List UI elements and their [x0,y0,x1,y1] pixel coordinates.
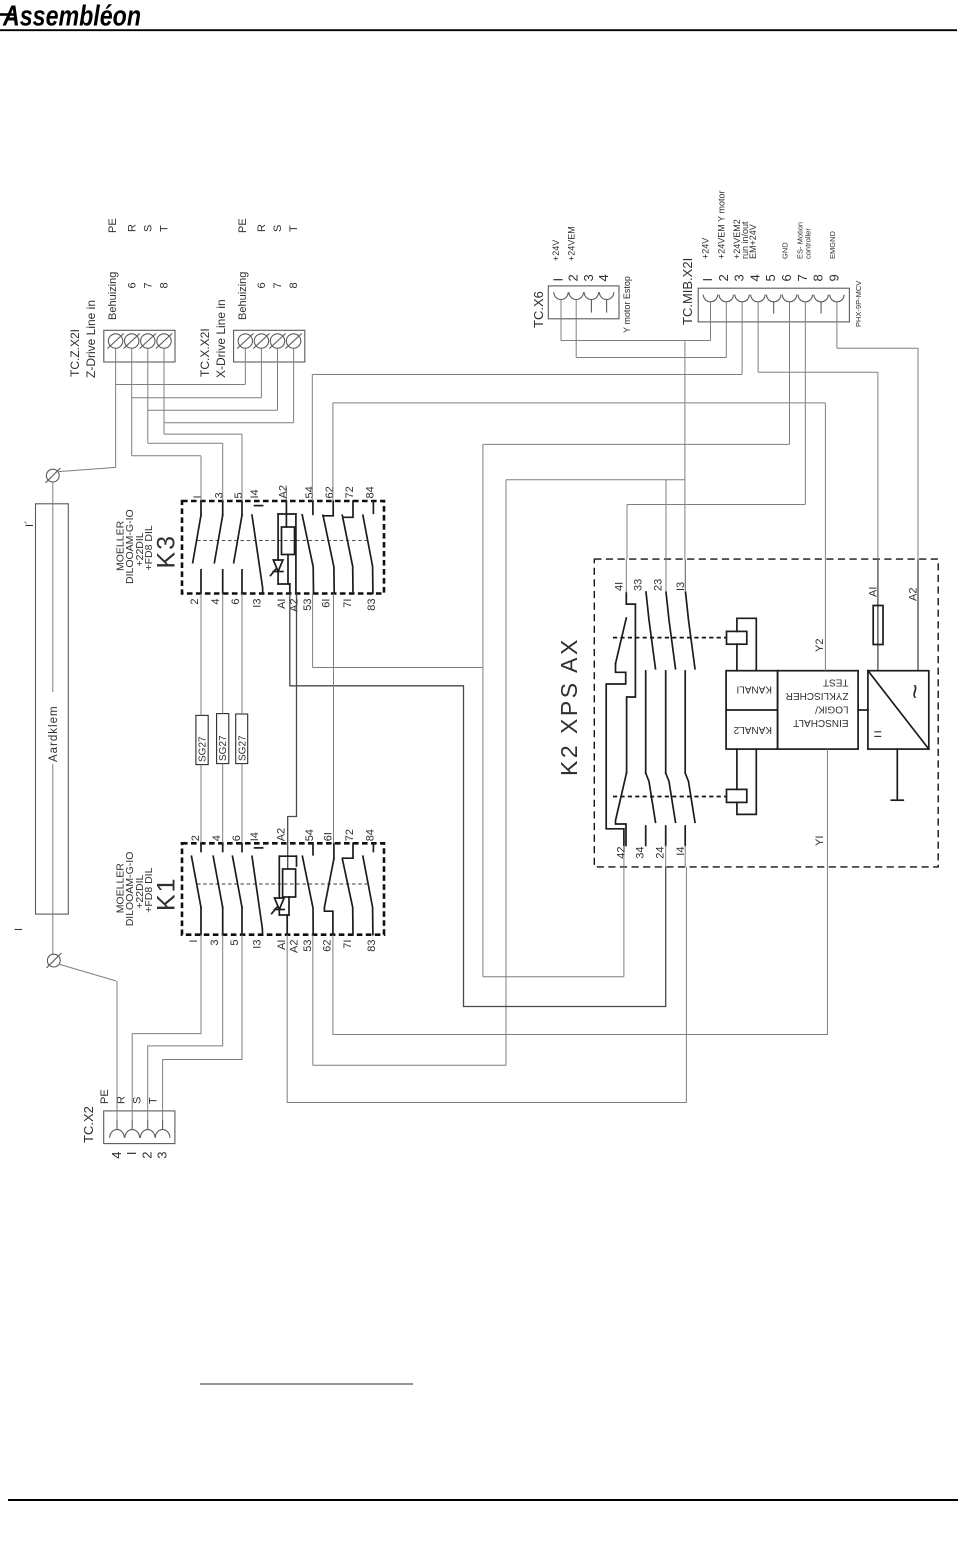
svg-text:A2: A2 [908,588,920,601]
svg-text:54: 54 [304,829,316,841]
wire earth 2 to TC.X2 PE [116,981,118,1121]
svg-text:Z-Drive Line in: Z-Drive Line in [84,300,98,378]
earth electrode symbol bottom [47,953,116,981]
svg-text:I4: I4 [675,847,687,856]
fuse F2 SG27 [217,714,230,764]
svg-text:3: 3 [214,492,226,498]
contactor K1 labels [114,852,180,927]
contactor K3 labels [114,509,180,584]
svg-text:AI: AI [868,587,880,597]
svg-text:AI: AI [276,940,288,950]
fuse F3 SG27 [236,714,249,764]
svg-text:K3: K3 [153,534,181,569]
svg-text:84: 84 [364,829,376,841]
svg-text:62: 62 [324,486,336,498]
svg-text:5: 5 [233,492,245,498]
connector TC.MIB.X2I [680,191,863,327]
contactor K1 box [182,843,384,934]
svg-text:SG27: SG27 [237,735,248,761]
svg-text:TC.X.X2I: TC.X.X2I [198,328,212,377]
svg-text:4: 4 [211,835,223,841]
K1 aux contact 14-13 [252,848,263,935]
svg-text:72: 72 [344,829,356,841]
svg-text:6: 6 [230,599,242,605]
K1 pin labels top [190,828,376,841]
wire K1 A1 to K2 contact 14 [287,867,686,1103]
K3 pin labels bottom [189,599,378,612]
svg-text:PE: PE [99,1089,111,1104]
svg-text:4I: 4I [614,582,626,591]
K3 coil A1-A2 [278,488,296,594]
svg-text:~: ~ [900,684,930,699]
wire K3 pole outputs through fuses SG27 to K1 [201,594,242,844]
footer separator line [200,1383,413,1385]
svg-text:R: R [127,224,139,232]
wire ES- motion controller net: MIB.7 to K2 41 [626,302,805,593]
wire K1 62 to K2 Y1 [333,867,828,1035]
svg-text:KANAL2: KANAL2 [733,724,772,735]
svg-text:controller: controller [804,228,813,259]
svg-text:7: 7 [143,282,155,288]
svg-text:3: 3 [155,1152,170,1159]
wire K3 A2 to K1 A2 [288,594,297,844]
K2 Y2 wire and label [814,559,826,671]
K3 aux contact 13-14 [252,506,263,594]
svg-text:EINSCHALT: EINSCHALT [793,717,848,728]
K1 aux contact 61-62 NC [324,843,334,934]
K1 coil A2-A1 [279,843,296,934]
svg-text:S: S [132,1097,144,1104]
wire +24VEM2 net: MIB.3 to K3 54 [312,302,742,501]
connector TC.X2 [81,1089,175,1158]
K2 lower actuator linkage [613,749,756,814]
svg-text:A2: A2 [289,940,301,953]
earth terminal strip Aardklem [13,482,68,954]
K1 suppressor diode [272,856,284,915]
K3 aux contact 61-62 NC [323,501,334,593]
K1 main poles 2-1 4-3 6-5 [192,843,243,934]
svg-text:83: 83 [366,599,378,611]
svg-text:6: 6 [779,274,794,281]
wire K3 A1 to K2 contact 24 [290,594,666,1007]
svg-text:2: 2 [140,1152,155,1159]
fuse F1 SG27 [196,715,209,764]
svg-text:2: 2 [716,274,731,281]
wire PE net top: Z.PE to X.PE and earth 1 [116,349,246,468]
svg-text:SG27: SG27 [218,735,229,761]
svg-text:6: 6 [231,835,243,841]
svg-text:83: 83 [366,940,378,952]
svg-text:T: T [288,225,300,232]
svg-text:4: 4 [747,274,762,281]
svg-text:4: 4 [210,599,222,605]
svg-text:A2: A2 [277,485,289,498]
svg-text:4: 4 [109,1152,124,1159]
svg-text:I4: I4 [249,489,261,498]
wire phase T net: Z.T / X.T / K3 pole 5 [164,349,294,501]
svg-text:S: S [272,225,284,232]
svg-text:+24VEM: +24VEM [566,226,576,261]
K2 logic box EINSCHALT LOGIK / ZYKLISCHER TEST [778,671,859,749]
wire phase S net: Z.S / X.S / K3 pole 3 [148,349,278,501]
K1 aux contact 84-83 [363,843,374,934]
connector TC.Z.X2I [68,218,175,378]
svg-text:7I: 7I [342,599,354,608]
K3 aux contact 83-84 [363,501,374,593]
svg-text:PE: PE [107,218,119,233]
safety relay K2 XPS AX box [556,559,938,867]
svg-text:I4: I4 [249,832,261,841]
svg-text:72: 72 [344,486,356,498]
svg-text:I: I [124,1152,139,1156]
contactor K3 box [182,501,384,594]
svg-text:9: 9 [826,274,841,281]
svg-text:TEST: TEST [823,677,849,688]
connector TC.X6 [531,226,632,333]
svg-text:I3: I3 [252,599,264,608]
svg-text:ZYKLISCHER: ZYKLISCHER [786,690,849,701]
K2 power supply converter [858,671,929,749]
svg-text:2: 2 [566,274,581,281]
svg-text:I: I [13,928,25,931]
K3 aux contact 53-54 [302,501,313,593]
K2 upper actuator linkage [613,618,756,670]
svg-text:5: 5 [763,274,778,281]
svg-text:+24V: +24V [701,238,711,259]
svg-text:6: 6 [256,282,268,288]
wire K1 pole outputs to TC.X2 R S T [132,935,242,1121]
svg-text:I: I [551,278,566,282]
K2 supply fuse on A1 [868,559,884,671]
Assembleon logo [0,1,141,33]
svg-text:S: S [143,225,155,232]
svg-text:Behuizing: Behuizing [107,272,119,320]
earth electrode symbol top [46,467,116,482]
svg-text:TC.X2: TC.X2 [81,1106,96,1143]
svg-text:PHX-9P-MCV: PHX-9P-MCV [854,281,863,327]
svg-text:8: 8 [288,282,300,288]
wire K3 61 to K1 61 [333,594,335,844]
K3 suppressor diode [271,514,283,584]
svg-text:Aardklem: Aardklem [48,705,60,762]
svg-text:TC.Z.X2I: TC.Z.X2I [68,329,82,377]
svg-text:2: 2 [190,835,202,841]
svg-text:T: T [148,1097,160,1104]
K2 internal ground [891,749,903,800]
K2 contact 23-24 [666,559,676,867]
svg-text:T: T [159,225,171,232]
svg-text:3: 3 [732,274,747,281]
svg-text:54: 54 [304,486,316,498]
svg-text:AI: AI [276,599,288,609]
svg-text:I: I [700,278,715,282]
svg-text:24: 24 [655,847,667,859]
K1 aux contact 54-53 [302,843,313,934]
svg-text:X-Drive Line in: X-Drive Line in [214,299,228,378]
svg-text:K1: K1 [153,876,181,911]
svg-text:LOGIK/: LOGIK/ [815,704,849,715]
K2 contact 33-34 [646,592,656,846]
svg-text:7: 7 [795,274,810,281]
svg-text:SG27: SG27 [198,736,209,762]
svg-text:I: I [188,940,200,943]
K2 contact labels [614,579,688,859]
K3 aux contact 71-72 NC [342,501,353,593]
svg-text:23: 23 [653,579,665,591]
svg-text:+24V: +24V [551,240,561,261]
svg-text:TC.MIB.X2I: TC.MIB.X2I [680,258,695,325]
svg-text:K2 XPS AX: K2 XPS AX [556,637,582,776]
K3 main poles 1-2 3-4 5-6 [193,501,242,594]
svg-text:4: 4 [596,274,611,281]
svg-text:PE: PE [237,218,249,233]
svg-text:+FD8 DIL: +FD8 DIL [143,525,155,570]
svg-text:84: 84 [364,486,376,498]
connector TC.X.X2I [198,218,305,378]
K2 contact 13-14 [685,559,695,867]
svg-text:GND: GND [781,242,790,259]
svg-text:53: 53 [302,940,314,952]
svg-text:8: 8 [159,282,171,288]
wire +24V net: X6.1 MIB.1 to K2 13 23 and K1 53 [313,300,711,1066]
svg-text:A2: A2 [276,828,288,841]
wire +24VEM net: X6.2 to MIB.2 [576,300,726,358]
wire EMGND net: MIB.9 to K2 A2 [837,302,918,559]
svg-text:R: R [256,224,268,232]
wire GND net: MIB.6 to K3 62, K2 Y2, K2 42 and K3 53 [313,302,826,977]
svg-text:6I: 6I [321,599,333,608]
wire phase R net: Z.R / X.R / K3 pole 1 [132,349,262,501]
svg-text:Y motor Estop: Y motor Estop [622,276,632,333]
svg-text:I3: I3 [252,940,264,949]
svg-text:2: 2 [189,599,201,605]
K2 Y1 wire and label [814,749,827,867]
svg-text:3: 3 [209,940,221,946]
svg-text:EM+24V: EM+24V [748,224,758,259]
wire EM+24V net: MIB.4 to K2 A1 [758,302,878,559]
svg-text:EMGND: EMGND [828,231,837,260]
svg-text:TC.X6: TC.X6 [531,291,546,328]
svg-text:7: 7 [272,282,284,288]
svg-text:7I: 7I [342,940,354,949]
K1 aux contact 72-71 NC [342,843,353,934]
svg-text:I´: I´ [24,520,36,527]
svg-text:KANALI: KANALI [736,683,772,694]
svg-text:YI: YI [814,836,826,846]
K2 channel logic boxes KANAL1 KANAL2 [726,671,778,749]
bottom rule [8,1499,958,1501]
svg-text:6I: 6I [323,832,335,841]
svg-text:8: 8 [811,274,826,281]
top rule [0,29,957,31]
svg-text:+FD8 DIL: +FD8 DIL [143,867,155,912]
K1 pin labels bottom [188,940,378,953]
svg-text:33: 33 [633,579,645,591]
svg-text:Y2: Y2 [814,639,826,652]
K2 A2 wire [908,559,920,671]
svg-text:Behuizing: Behuizing [237,272,249,320]
svg-text:42: 42 [616,847,628,859]
K3 pin labels top [192,485,376,498]
svg-text:3: 3 [581,274,596,281]
svg-text:+24VEM Y motor: +24VEM Y motor [716,191,726,259]
svg-text:I: I [192,495,204,498]
svg-text:5: 5 [229,940,241,946]
svg-text:6: 6 [127,282,139,288]
svg-text:62: 62 [322,940,334,952]
K2 contact 41-42 NC [606,593,635,867]
svg-text:34: 34 [635,847,647,859]
svg-text:Assembléon: Assembléon [2,1,141,33]
